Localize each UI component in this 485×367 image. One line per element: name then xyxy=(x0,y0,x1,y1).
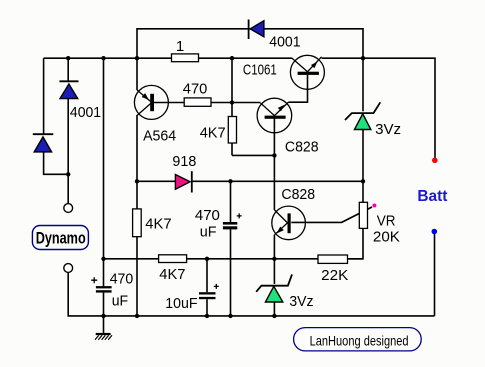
node x363 y58 xyxy=(361,56,365,60)
wire x363 zener to VR xyxy=(362,130,364,203)
wire lower-left diode anode to node xyxy=(44,152,69,174)
ground xyxy=(95,333,112,340)
wire x68 upper diode cathode xyxy=(67,58,69,80)
wire left column x44 xyxy=(43,58,45,133)
wire 918 row left xyxy=(137,180,175,182)
wire lower C828 collector xyxy=(273,155,275,210)
node diodes join xyxy=(66,172,70,176)
zener 3Vz upper xyxy=(345,102,401,138)
node 918 right xyxy=(228,179,232,183)
wire x103 cap bottom to rail xyxy=(103,293,105,316)
wire x137 lower column through 4K7 xyxy=(136,181,138,316)
node Batt+ xyxy=(432,158,438,164)
diode 4001 left upper xyxy=(59,81,101,121)
wire lower C828 base to VR wiper xyxy=(291,207,372,222)
node x232 y58 xyxy=(230,56,234,60)
wire dynamo bottom to ground rail xyxy=(68,273,434,316)
wire x232 column xyxy=(231,58,233,155)
transistor Q2 C828 upper xyxy=(257,98,319,155)
wire ground stub xyxy=(103,316,105,333)
node x103 y259 xyxy=(101,257,105,261)
svg-text:470: 470 xyxy=(195,207,220,224)
svg-text:4001: 4001 xyxy=(70,104,101,121)
svg-text:3Vz: 3Vz xyxy=(375,121,401,138)
capacitor 470uF middle xyxy=(195,207,242,240)
node rail x274 xyxy=(272,314,276,318)
resistor 4K7 left xyxy=(133,209,172,237)
svg-text:22K: 22K xyxy=(321,267,348,284)
wire main +rail y58 right of C1061 to Batt+ xyxy=(322,58,435,160)
svg-text:3Vz: 3Vz xyxy=(289,293,313,310)
wire VR bottom to 22K xyxy=(348,228,364,258)
svg-text:10uF: 10uF xyxy=(165,295,197,312)
svg-text:A564: A564 xyxy=(143,127,176,144)
node collector join xyxy=(272,153,276,157)
svg-text:C828: C828 xyxy=(281,186,315,203)
transistor Q1 A564 xyxy=(134,85,176,144)
wire top rail with corners xyxy=(137,29,363,58)
wire mid cap column xyxy=(230,181,232,316)
svg-text:4001: 4001 xyxy=(269,34,300,51)
terminal dynamo top xyxy=(64,204,73,213)
node rail x230 xyxy=(228,314,232,318)
Dynamo terminal label xyxy=(32,226,88,250)
svg-text:918: 918 xyxy=(172,153,196,170)
wire 4K7 bottom to node xyxy=(232,154,274,156)
wire lower C828 emitter to node xyxy=(273,235,275,259)
node 10uF top xyxy=(205,257,209,261)
resistor 4K7 upper xyxy=(200,117,237,144)
svg-text:470: 470 xyxy=(110,270,134,287)
svg-text:C828: C828 xyxy=(285,139,319,156)
svg-text:470: 470 xyxy=(183,81,208,98)
wire A564 base row y102 xyxy=(154,102,261,104)
wire 10uF column xyxy=(206,259,208,316)
diode 918 xyxy=(172,153,196,193)
wire 918 row right xyxy=(192,180,363,182)
capacitor 10uF xyxy=(165,284,219,312)
svg-text:Batt: Batt xyxy=(417,188,448,205)
wire x68 upper diode anode to dynamo top xyxy=(67,99,69,204)
capacitor 470uF left xyxy=(91,270,133,309)
node zener top xyxy=(272,257,276,261)
svg-text:Dynamo: Dynamo xyxy=(36,230,86,248)
node rail x103 xyxy=(101,314,105,318)
node Batt- xyxy=(432,229,438,235)
zener 3Vz lower xyxy=(256,274,313,310)
wire bottom zener column xyxy=(273,259,275,316)
wire Batt- down xyxy=(434,232,436,316)
node rail x137 xyxy=(135,314,139,318)
wire upper C828 emitter to C1061 base xyxy=(289,75,308,102)
wire x103 column xyxy=(103,58,105,286)
node rail x207 xyxy=(205,314,209,318)
transistor Q3 C1061 xyxy=(243,55,325,89)
resistor 470 xyxy=(183,81,211,107)
svg-text:4K7: 4K7 xyxy=(200,125,226,142)
svg-text:20K: 20K xyxy=(373,229,400,246)
node x68 y58 xyxy=(66,56,70,60)
wire main +rail y58 left of C1061 xyxy=(44,57,292,59)
node x363 y181 xyxy=(361,179,365,183)
node base row xyxy=(230,100,234,104)
node x103 y58 xyxy=(101,56,105,60)
wire upper C828 base down xyxy=(273,117,275,155)
svg-text:uF: uF xyxy=(200,223,217,240)
resistor 4K7 horizontal xyxy=(159,255,187,283)
diode left lower xyxy=(33,134,54,152)
node wiper tap dot xyxy=(372,204,376,208)
svg-text:VR: VR xyxy=(377,212,396,229)
node x137 y58 xyxy=(135,56,139,60)
terminal dynamo bottom xyxy=(64,264,73,273)
resistor 22K xyxy=(318,255,348,284)
wire A564 collector column xyxy=(136,115,138,181)
svg-text:LanHuong designed: LanHuong designed xyxy=(310,332,409,348)
resistor 1 xyxy=(172,38,199,62)
svg-text:4K7: 4K7 xyxy=(145,216,171,233)
svg-text:uF: uF xyxy=(112,293,128,310)
LanHuong designed label xyxy=(294,328,422,351)
wire A564 emitter column xyxy=(136,58,138,90)
svg-text:1: 1 xyxy=(176,38,184,55)
transistor Q4 C828 lower xyxy=(272,186,315,240)
svg-text:4K7: 4K7 xyxy=(159,266,185,283)
node 918 left xyxy=(135,179,139,183)
wire bias row y258.8 xyxy=(104,258,364,260)
potentiometer VR 20K xyxy=(359,202,400,245)
wire x363 column top xyxy=(362,58,364,111)
svg-text:C1061: C1061 xyxy=(243,62,277,79)
diode 4001 top xyxy=(249,20,301,51)
